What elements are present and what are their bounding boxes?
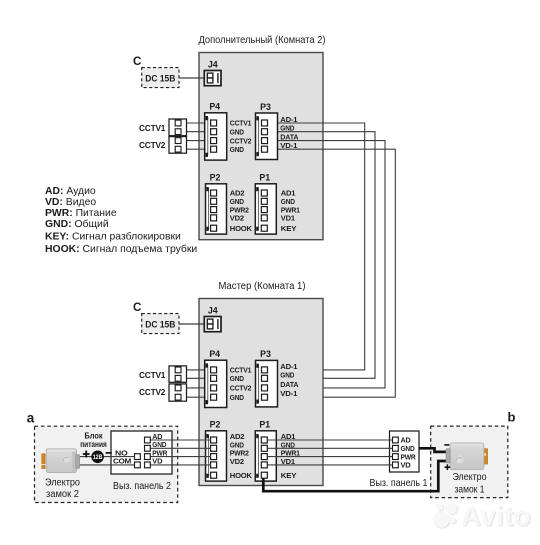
svg-text:GND: GND [230,199,244,206]
svg-text:C: C [133,301,142,314]
electric lock 1 [446,443,488,470]
svg-text:C: C [133,55,142,68]
call panel 2 box [111,431,172,474]
svg-text:PWR: PWR [401,454,416,461]
svg-text:P4: P4 [209,349,220,359]
svg-text:J4: J4 [208,60,218,70]
svg-text:GND: GND [230,376,244,383]
svg-text:KEY: Сигнал разблокировки: KEY: Сигнал разблокировки [45,231,181,243]
wire: CCTV2 pin1 to P4 pin3 (master) [181,387,211,389]
plus sign (lock 1) [445,464,451,470]
svg-text:VD: VD [401,463,411,470]
label Электро замок 2 [45,478,81,500]
svg-text:GND: GND [401,446,415,453]
pins AD/GND/PWR/VD (call panel 1) [393,437,399,468]
svg-text:VD2: VD2 [230,216,244,223]
svg-text:GND: GND [230,147,244,154]
svg-text:P1: P1 [259,420,270,430]
svg-text:a: a [27,410,35,425]
svg-text:GND: GND [281,199,295,206]
connector J4 (room 2) [204,60,221,86]
svg-text:P2: P2 [210,420,221,430]
svg-text:HOOK: Сигнал подъема трубки: HOOK: Сигнал подъема трубки [45,243,197,255]
svg-text:GND: GND [152,442,166,449]
svg-text:AD-1: AD-1 [280,115,298,124]
svg-text:VD1: VD1 [281,216,295,223]
svg-text:Дополнительный (Комната 2): Дополнительный (Комната 2) [199,35,326,46]
svg-text:CCTV1: CCTV1 [139,370,166,380]
svg-text:GND: GND [230,395,244,402]
connector J4 (master) [204,306,221,332]
svg-text:AD: Аудио: AD: Аудио [45,186,96,197]
svg-text:P3: P3 [260,102,271,112]
svg-text:Выз. панель 1: Выз. панель 1 [370,478,428,489]
svg-text:AD: AD [152,434,162,441]
svg-text:PWR2: PWR2 [230,451,249,458]
svg-text:AD: AD [401,438,411,445]
legend: signal abbreviations [45,186,197,255]
svg-text:DATA: DATA [280,380,299,389]
svg-text:GND: GND [280,124,295,133]
minus sign (supply) [106,452,112,454]
labels AD/GND/PWR/VD (call panel 1) [401,438,416,470]
svg-text:VD-1: VD-1 [280,141,298,150]
labels AD/GND/PWR/VD (call panel 2) [152,434,167,466]
call panel 1 box [390,431,420,472]
svg-text:CCTV1: CCTV1 [139,123,166,133]
svg-text:Электро: Электро [453,472,487,483]
svg-text:HOOK: HOOK [230,226,252,233]
svg-text:DC 15В: DC 15В [145,319,175,329]
thick wire: panel1 GND to lock 1 minus [419,448,447,452]
minus sign (lock 1) [444,444,449,446]
svg-text:Выз. панель 2: Выз. панель 2 [113,481,171,492]
connector P3 (master) [256,349,299,407]
pin NO (call panel 2) [135,454,141,460]
svg-text:P2: P2 [210,173,221,183]
svg-text:VD-1: VD-1 [280,389,298,398]
electric lock 2 [41,449,79,473]
power adapter DC 15B (room 2) [142,68,179,88]
svg-text:J4: J4 [208,306,218,316]
connector P2 (master) [206,420,253,481]
wire: CCTV1 pin1 to P4 pin1 (room 2) [181,122,211,124]
svg-text:CCTV1: CCTV1 [230,368,252,375]
connector P4 (master) [205,349,252,408]
power adapter DC 15B (master) [142,314,179,334]
wire: CCTV1 pin1 to P4 pin1 (master) [181,369,211,371]
thick wire: P1 KEY to lock 1 plus [263,461,446,491]
svg-text:PWR: PWR [152,450,167,457]
wire: CCTV1 pin2 to P4 pin2 (master) [181,377,211,379]
label Электро замок 1 [453,472,487,496]
wire: CCTV2 pin1 to P4 pin3 (room 2) [181,140,211,142]
svg-text:NO: NO [115,450,129,457]
svg-text:PWR: Питание: PWR: Питание [45,208,117,219]
svg-text:GND: GND [230,129,244,136]
dashed enclosure b [431,426,508,498]
svg-text:CCTV2: CCTV2 [139,140,166,150]
plus sign (supply) [83,451,90,458]
pin COM (call panel 2) [135,462,141,468]
dashed enclosure a [35,426,178,502]
svg-text:PWR1: PWR1 [281,207,300,214]
svg-text:AD2: AD2 [230,191,245,198]
wire: DC adapter to J4 (master) [179,323,205,325]
wires: call panel 2 AD/GND/PWR/VD to P2 master [150,440,211,465]
svg-text:питания: питания [80,439,107,449]
wire: CCTV2 pin2 to P4 pin4 (room 2) [181,148,211,150]
svg-text:GND: Общий: GND: Общий [45,218,109,230]
wire: CCTV2 pin2 to P4 pin4 (master) [181,396,211,398]
wire: DC adapter to J4 (room 2) [179,77,205,79]
12V supply bulb [91,451,104,464]
svg-text:VD2: VD2 [230,459,244,466]
svg-text:GND: GND [230,442,244,449]
CCTV2 input connector (room 2) [169,137,187,154]
svg-text:KEY: KEY [281,473,297,480]
monitor unit (Комната 1) body [199,299,323,486]
svg-text:CCTV2: CCTV2 [230,386,252,393]
connector P2 (room 2) [206,173,253,235]
svg-text:Электро: Электро [45,478,81,489]
svg-text:P3: P3 [260,349,271,359]
svg-text:CCTV2: CCTV2 [230,138,252,145]
label Блок питания [80,431,107,449]
CCTV2 input connector (master) [169,384,187,401]
wires: P1 master to call panel 1 (AD,GND,PWR,VD) [267,440,392,465]
connector P4 (room 2) [205,102,252,161]
svg-text:b: b [508,410,516,425]
monitor unit (Комната 2) body [199,53,323,240]
bus wires AD-1/GND/DATA/VD-1 from P3 room2 to P3 master [268,123,396,397]
svg-text:GND: GND [280,370,295,379]
svg-text:VD: VD [152,459,162,466]
svg-text:Мастер (Комната 1): Мастер (Комната 1) [219,281,306,292]
wire: CCTV1 pin2 to P4 pin2 (room 2) [181,131,211,133]
Avito watermark [433,501,533,533]
connector P3 (room 2) [256,102,299,160]
wire: lock 2 to COM [79,464,135,466]
svg-text:замок 1: замок 1 [455,485,485,496]
CCTV1 input connector (master) [169,366,187,382]
wire: lock 2 to NO via 12V supply [79,456,135,458]
svg-text:12В: 12В [93,454,103,461]
svg-text:KEY: KEY [281,226,297,233]
pins AD/GND/PWR/VD (call panel 2) [145,437,151,468]
svg-text:замок 2: замок 2 [46,489,79,500]
CCTV1 input connector (room 2) [169,119,187,136]
svg-text:P1: P1 [259,173,270,183]
connector P1 (room 2) [255,173,300,235]
svg-text:P4: P4 [209,102,220,112]
connector P1 (master) [255,420,300,481]
svg-text:AD2: AD2 [230,434,245,441]
svg-text:CCTV1: CCTV1 [230,121,252,128]
svg-text:DC 15В: DC 15В [145,73,175,83]
svg-text:Avito: Avito [461,501,531,532]
svg-text:VD: Видео: VD: Видео [45,197,96,208]
svg-text:HOOK: HOOK [230,473,252,480]
svg-text:PWR2: PWR2 [230,207,249,214]
svg-text:CCTV2: CCTV2 [139,387,166,397]
svg-text:COM: COM [113,459,132,466]
svg-text:AD1: AD1 [281,191,296,198]
